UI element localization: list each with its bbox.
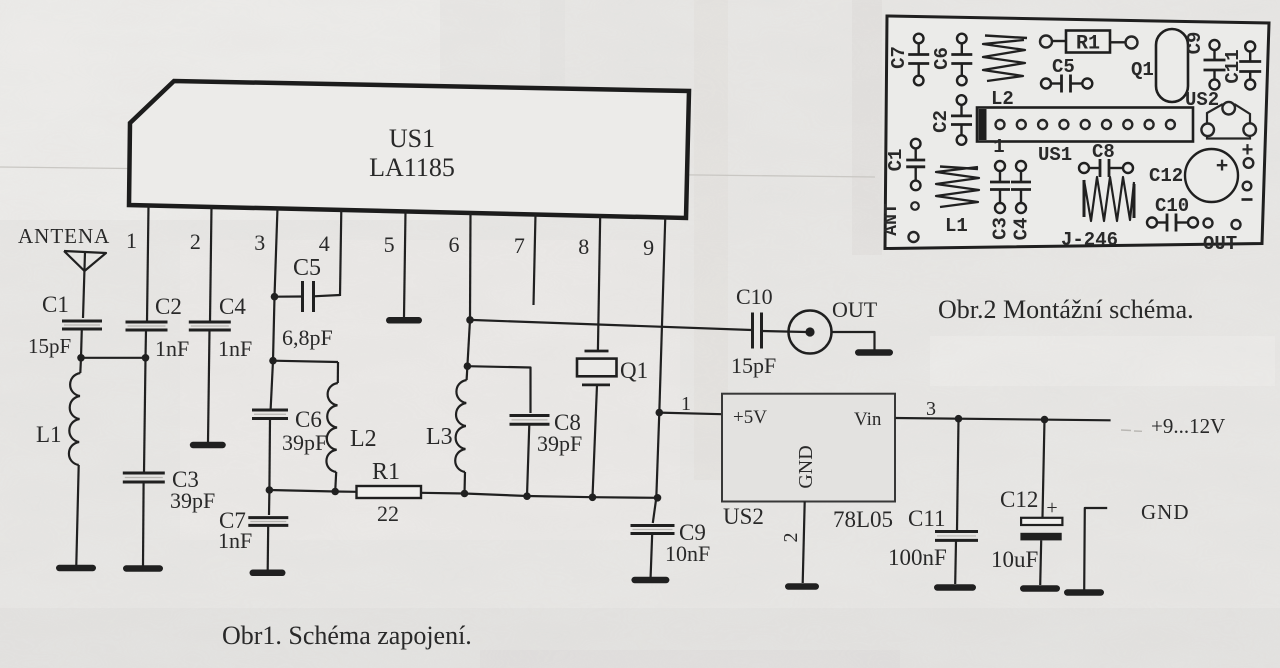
connector ANT pads (PCB) [882, 202, 919, 242]
wire pin 2 of US1 down [210, 207, 212, 323]
op-amp U1: IC US1 LA1185 body [129, 81, 689, 218]
wire OUT shell to ground [832, 332, 875, 350]
svg-text:R1: R1 [372, 459, 400, 485]
capacitor C1 (PCB) [885, 139, 925, 190]
wire pin 9 of US1 down [659, 217, 665, 413]
svg-text:1nF: 1nF [155, 336, 189, 361]
capacitor C7 (PCB) [888, 34, 929, 86]
antenna symbol [64, 251, 106, 318]
svg-text:C1: C1 [42, 292, 69, 317]
capacitor C5 [275, 255, 341, 350]
node pin6/output-wire junction dot [466, 316, 474, 324]
inductor L1 (PCB zigzag) [936, 167, 979, 238]
resistor R1 (PCB) [1040, 31, 1138, 56]
svg-text:15pF: 15pF [731, 353, 776, 378]
svg-text:C2: C2 [930, 110, 952, 133]
svg-text:C12: C12 [1149, 165, 1183, 187]
wire C2 to node A [144, 330, 147, 358]
svg-text:ANT: ANT [882, 203, 902, 236]
svg-text:ANTENA: ANTENA [18, 224, 110, 248]
wire pin6 down to L3/C8 node [467, 320, 470, 366]
capacitor C8 labels [537, 410, 582, 456]
svg-text:C6: C6 [931, 47, 953, 70]
node pin6/L3/C8 junction dot [464, 362, 472, 370]
wire US2 Vin pin 3 to +9...12V rail [895, 418, 1110, 420]
wire C11 to ground [954, 540, 957, 584]
svg-text:5: 5 [384, 232, 395, 257]
svg-text:78L05: 78L05 [833, 507, 893, 532]
svg-text:J-246: J-246 [1061, 229, 1118, 251]
wire rail to C11 [957, 419, 959, 531]
capacitor C11 [888, 506, 978, 570]
capacitor C1 [28, 292, 102, 358]
svg-text:C9: C9 [1184, 32, 1206, 55]
capacitor C5 (PCB) [1041, 56, 1092, 93]
inductor L2 (PCB zigzag) [983, 36, 1027, 111]
wire pin6 node to C10 (crosses pins 7,8,9 without connection) [470, 320, 752, 330]
node rail/C11 junction dot [955, 415, 963, 423]
ground under C4 [190, 442, 226, 449]
resistor R1 value 22 [357, 459, 422, 526]
ground under C12 [1020, 585, 1060, 592]
PCB board outline J-246 [885, 16, 1269, 249]
svg-text:C7: C7 [888, 46, 910, 69]
svg-text:GND: GND [1141, 500, 1190, 524]
wire Q1 to bus [593, 385, 598, 497]
wire C5 up to pin 4 of US1 [340, 210, 341, 296]
svg-text:C4: C4 [1011, 218, 1033, 241]
wire C8 to bus [527, 424, 529, 496]
node bus junction dots [266, 486, 274, 494]
svg-text:6,8pF: 6,8pF [282, 325, 333, 350]
wire pin 3 of US1 down [275, 208, 278, 297]
svg-text:L1: L1 [945, 215, 968, 237]
svg-text:C2: C2 [155, 294, 182, 319]
wire C10 to OUT connector [762, 331, 807, 332]
inductor L1 [36, 358, 81, 465]
svg-text:C10: C10 [1155, 195, 1189, 217]
GND terminal stub [1084, 508, 1107, 590]
transistor footprint US2 (PCB) [1185, 89, 1256, 139]
svg-text:C3: C3 [990, 217, 1012, 240]
inductor L2 [326, 362, 376, 492]
capacitor C10 [731, 284, 776, 378]
node pin3/L2 junction dot [269, 357, 277, 365]
svg-text:US1: US1 [1038, 144, 1072, 166]
wire pin 6 of US1 down [469, 213, 472, 320]
svg-text:C5: C5 [293, 255, 321, 281]
wire C1 to node A2 [80, 329, 83, 358]
capacitor C3 [123, 467, 215, 513]
svg-text:4: 4 [319, 231, 330, 256]
svg-text:L2: L2 [350, 426, 377, 452]
svg-text:Q1: Q1 [620, 358, 648, 383]
wire C7 to ground [267, 525, 270, 570]
wire L3/C8 node to C8 [467, 366, 530, 413]
svg-text:1: 1 [126, 228, 137, 253]
capacitor C4 [189, 294, 252, 361]
ground under C7 [250, 570, 286, 577]
inductor L3 (PCB zigzag) [1084, 177, 1134, 221]
faint scan dashes [1121, 429, 1131, 432]
capacitor C6 [252, 361, 327, 455]
wire C9 to ground [651, 534, 653, 578]
wire pin 5 of US1 to ground [404, 211, 406, 317]
svg-text:Vin: Vin [854, 409, 882, 430]
svg-text:R1: R1 [1076, 33, 1100, 56]
capacitor C12 (PCB electrolytic circle) [1149, 149, 1238, 202]
svg-text:15pF: 15pF [28, 334, 71, 358]
svg-text:1nF: 1nF [218, 528, 252, 553]
svg-text:2: 2 [190, 229, 201, 254]
wire pin9 node to US2 pin 1 [659, 413, 722, 415]
svg-text:C12: C12 [1000, 487, 1038, 512]
svg-text:39pF: 39pF [282, 430, 327, 455]
ground under OUT [855, 349, 893, 356]
ground under C3 [123, 565, 163, 572]
svg-text:C8: C8 [1092, 141, 1115, 163]
wire rail to C12 [1043, 420, 1045, 517]
svg-text:L3: L3 [426, 424, 453, 450]
wire C3 to ground [142, 482, 145, 566]
svg-text:C4: C4 [219, 294, 246, 319]
svg-text:Obr.2 Montážní schéma.: Obr.2 Montážní schéma. [938, 295, 1194, 324]
wire L1 to ground [76, 465, 78, 565]
svg-text:100nF: 100nF [888, 545, 947, 570]
svg-text:10uF: 10uF [991, 547, 1038, 572]
svg-text:+: + [1216, 156, 1229, 179]
capacitor C9 [631, 520, 711, 566]
node pin3/C5 junction dot [271, 293, 279, 301]
voltage regulator US2 78L05 box [722, 394, 895, 532]
capacitor C7 [218, 508, 288, 553]
crystal Q1 (PCB oval) [1131, 29, 1188, 102]
capacitor C9 (PCB) [1184, 32, 1225, 90]
svg-text:3: 3 [254, 230, 265, 255]
svg-text:6: 6 [449, 232, 460, 257]
svg-text:C6: C6 [295, 407, 322, 432]
capacitor C2 (PCB) [930, 95, 972, 145]
wire US2 GND pin 2 to ground [803, 502, 805, 584]
svg-text:US1: US1 [389, 124, 435, 153]
capacitor C10 (PCB) [1147, 195, 1198, 232]
capacitor C12 electrolytic 10uF [991, 487, 1062, 572]
svg-text:C11: C11 [908, 506, 946, 531]
svg-text:8: 8 [578, 234, 589, 259]
svg-text:US2: US2 [723, 504, 764, 529]
svg-text:3: 3 [926, 398, 936, 420]
power terminal - (PCB) [1242, 182, 1253, 200]
svg-text:C1: C1 [885, 149, 907, 172]
svg-text:Obr1. Schéma zapojení.: Obr1. Schéma zapojení. [222, 621, 472, 650]
IC socket US1 (PCB) [977, 108, 1193, 142]
connector OUT pads (PCB) [1203, 219, 1241, 256]
node pin9/US2 junction dot [656, 409, 664, 417]
svg-text:Q1: Q1 [1131, 59, 1154, 81]
svg-text:39pF: 39pF [537, 431, 582, 456]
power terminal + (PCB) [1241, 140, 1253, 168]
svg-text:1: 1 [681, 393, 691, 415]
wire pin9 node down to C9 node [656, 413, 659, 498]
ground under US2 pin 2 [785, 583, 819, 590]
wire pin 7 of US1 (unconnected stub) [534, 214, 536, 305]
node A junction dot (C1/C2 join) [142, 354, 150, 362]
node rail/C12 junction dot [1041, 416, 1049, 424]
wire bus to C7 [268, 490, 271, 515]
svg-text:C10: C10 [736, 284, 773, 309]
svg-text:39pF: 39pF [170, 488, 215, 513]
svg-text:C5: C5 [1052, 56, 1075, 78]
crystal Q1 [577, 351, 648, 385]
ground under C11 [934, 584, 976, 591]
svg-text:LA1185: LA1185 [369, 153, 455, 182]
svg-text:1nF: 1nF [218, 336, 252, 361]
ground under C9 [631, 577, 669, 584]
wire to L2 top [273, 361, 338, 362]
ground under GND terminal [1064, 589, 1104, 596]
ground under pin 5 [386, 317, 422, 324]
wire pin 1 of US1 down [147, 205, 149, 322]
svg-text:OUT: OUT [832, 297, 878, 322]
svg-text:GND: GND [795, 445, 817, 488]
ground under L1 [56, 565, 96, 572]
inductor L3 [426, 366, 467, 493]
wire C12 to ground [1040, 540, 1041, 585]
capacitor C2 [126, 294, 190, 361]
capacitor C6 (PCB) [931, 34, 972, 86]
svg-text:C11: C11 [1222, 49, 1244, 83]
wire node A2 to node A [81, 357, 146, 359]
wire C6 to bus [268, 419, 271, 491]
svg-text:10nF: 10nF [665, 541, 710, 566]
capacitor C4 (PCB) [1011, 161, 1033, 240]
svg-text:+5V: +5V [733, 407, 767, 428]
capacitor C8 (PCB) [1079, 141, 1133, 177]
wire node A down to C3 [144, 358, 146, 473]
svg-text:+9...12V: +9...12V [1151, 414, 1225, 438]
wire pin 8 of US1 down to Q1 [598, 216, 600, 352]
wire pin3 junction down to L2 node [273, 297, 275, 361]
connector OUT (coax jack) [789, 297, 878, 354]
svg-text:2: 2 [780, 533, 802, 543]
wire C4 to ground [208, 330, 210, 442]
capacitor C8 [510, 416, 550, 425]
wire C9 node to C9 [653, 498, 657, 523]
capacitor C3 (PCB) [990, 161, 1012, 240]
svg-text:7: 7 [514, 233, 525, 258]
svg-text:1: 1 [993, 136, 1004, 158]
svg-text:9: 9 [643, 235, 654, 260]
svg-text:+: + [1046, 497, 1057, 519]
wire bottom bus (tank circuit common rail) [269, 490, 356, 492]
svg-text:22: 22 [377, 501, 399, 526]
node A2 junction dot (C1/L1) [77, 354, 85, 362]
svg-text:L1: L1 [36, 422, 62, 447]
capacitor C11 (PCB) [1222, 42, 1261, 90]
svg-text:OUT: OUT [1203, 233, 1237, 255]
